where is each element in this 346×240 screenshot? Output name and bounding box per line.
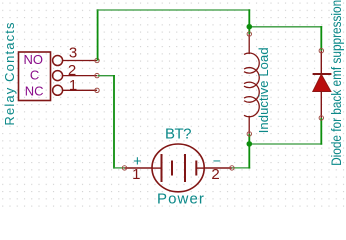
wire up to diode bottom [320,118,322,145]
inductor top pin end marker [247,32,251,36]
relay pin 3 end marker [95,58,99,62]
relay contact circle pin 3 [53,56,63,66]
wire up to inductor bottom [248,134,250,169]
battery plate long right [184,154,186,182]
battery pin 2 line [204,167,232,169]
wire junction to right lower [249,143,322,145]
battery plate short right [195,161,197,176]
wire top horizontal [97,9,251,11]
svg-text:1: 1 [69,77,77,94]
relay pin 1 line [63,89,97,91]
relay pin 1 end marker [95,88,99,92]
diode pin top line [320,51,322,74]
svg-text:NO: NO [23,52,43,67]
svg-text:Diode for back emf suppression: Diode for back emf suppression [328,0,344,166]
battery plate short left [171,161,173,176]
diode cathode bar [313,73,332,75]
relay pin 2 line [63,75,97,77]
svg-text:1: 1 [132,166,140,183]
battery pin 2 end marker [230,166,234,170]
svg-text:3: 3 [69,44,77,61]
diode bottom pin end marker [319,116,323,120]
diode triangle [313,74,331,91]
svg-text:Inductive Load: Inductive Load [256,47,271,133]
diode pin bottom line [320,92,322,118]
svg-text:Relay Contacts: Relay Contacts [2,21,17,125]
svg-text:2: 2 [211,166,219,183]
battery circle [152,144,204,192]
wire down to inductor top [248,9,250,34]
battery pin 1 end marker [122,166,126,170]
svg-text:Power: Power [157,190,205,207]
wire down to diode top [320,26,322,51]
diode top pin end marker [319,49,323,53]
inductor bottom pin end marker [247,132,251,136]
battery pin 1 line [125,167,153,169]
relay pin 2 end marker [95,73,99,77]
wire junction to right [249,26,322,28]
svg-text:BT?: BT? [165,125,191,142]
svg-text:C: C [30,67,39,82]
battery right stub [196,167,204,169]
junction top [247,24,253,30]
inductor coil [248,34,250,54]
relay pin 3 line [63,60,97,62]
battery left stub [152,167,162,169]
wire down left side [113,75,115,169]
wire into battery pin 1 [113,167,124,169]
wire pin2 right [98,75,115,77]
wire battery pin 2 to corner [232,167,250,169]
relay contacts symbol body [19,52,51,101]
battery plate long left [161,154,163,182]
wire pin3 up [97,9,99,60]
junction bottom [247,141,253,147]
relay contact circle pin 2 [53,71,63,81]
svg-text:NC: NC [25,83,44,98]
relay contact circle pin 1 [53,85,63,95]
